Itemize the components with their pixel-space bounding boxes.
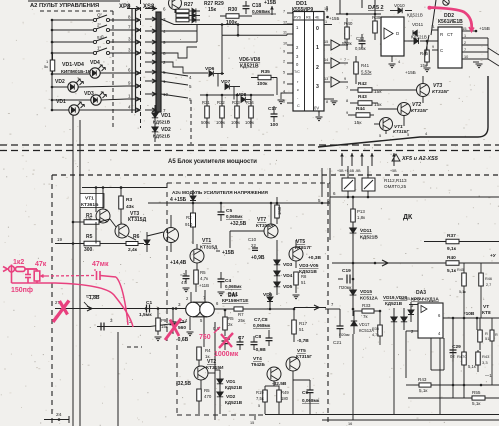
wire mid bottom	[452, 385, 454, 398]
pink bottom rail	[12, 282, 56, 284]
wire bus row3	[161, 19, 293, 25]
resistor R7 15k	[234, 307, 243, 311]
divider dashed line 1	[0, 144, 499, 146]
resistor right a	[478, 330, 483, 342]
capacitor C21	[337, 326, 344, 329]
diode pair VD19	[391, 317, 397, 322]
DD1 left pin 6	[287, 102, 293, 104]
svg-text:С20: С20	[356, 36, 365, 41]
svg-text:R45: R45	[420, 51, 429, 56]
capacitor C5	[218, 212, 225, 215]
vertical drops right	[463, 372, 465, 398]
connector XP8 bus	[131, 9, 133, 113]
svg-text:51: 51	[301, 280, 306, 285]
svg-text:2,7: 2,7	[486, 283, 491, 287]
svg-text:VT1: VT1	[85, 196, 94, 202]
pink X mark input	[53, 301, 69, 323]
svg-text:9,1к: 9,1к	[447, 246, 457, 252]
DD1 left pin 7	[287, 12, 293, 14]
svg-text:-10В: -10В	[464, 311, 475, 317]
switch common bus wire	[51, 20, 53, 111]
svg-text:КД521В: КД521В	[225, 385, 243, 390]
resistor R43b	[476, 352, 481, 365]
DD2 pin 7	[462, 51, 488, 53]
IC DD1 body	[293, 12, 324, 112]
svg-text:15к: 15к	[161, 324, 168, 329]
DD1 output buffer pin 13	[324, 81, 330, 83]
pink X mark C2	[165, 319, 181, 341]
resistor R40b	[462, 352, 467, 365]
svg-text:R46: R46	[485, 277, 492, 281]
svg-text:5,1к: 5,1к	[472, 401, 481, 406]
svg-text:100к: 100к	[226, 20, 237, 26]
svg-text:25к: 25к	[238, 318, 245, 323]
dashed separator	[140, 0, 142, 128]
svg-text:КТ315Г: КТ315Г	[296, 354, 312, 359]
board edge solid	[318, 137, 478, 147]
DD2 pin 2	[462, 44, 488, 46]
svg-text:5: 5	[258, 404, 260, 408]
svg-text:КР159НТ1Е: КР159НТ1Е	[222, 298, 249, 304]
svg-text:VD1-VD4: VD1-VD4	[62, 62, 84, 68]
wire input line 2	[97, 322, 186, 327]
svg-text:R40: R40	[447, 255, 456, 261]
svg-text:А2ч МОДУЛЬ УСИЛИТЕЛЯ НАПРЯЖ: А2ч МОДУЛЬ УСИЛИТЕЛЯ НАПРЯЖЕНИЯ	[172, 190, 268, 195]
resistor R5 4.7k	[194, 270, 199, 284]
svg-text:1М0: 1М0	[277, 206, 282, 215]
svg-text:100к: 100к	[231, 120, 240, 125]
DD1 output buffer pin 15	[324, 44, 330, 46]
svg-text:7: 7	[464, 48, 466, 52]
svg-text:VD11: VD11	[360, 228, 372, 234]
svg-text:15: 15	[462, 26, 467, 31]
svg-text:0,5мк: 0,5мк	[355, 46, 366, 51]
XP8 pin 6 arrow	[127, 72, 140, 74]
svg-text:+5В +5,6В -5В: +5В +5,6В -5В	[337, 169, 361, 173]
pink pot 47k	[34, 271, 40, 281]
svg-text:1,8к: 1,8к	[357, 215, 365, 220]
svg-text:100к: 100к	[216, 120, 225, 125]
svg-text:DA3: DA3	[416, 290, 426, 296]
diode VD5 module	[274, 282, 280, 287]
svg-text:+15Б: +15Б	[329, 16, 339, 21]
wire bus row4	[161, 30, 197, 32]
svg-text:VT1: VT1	[202, 238, 211, 244]
DD2 gnd	[473, 61, 479, 63]
transistor VT2 top	[398, 103, 411, 116]
fuse box 2	[362, 178, 375, 191]
screw symbol	[443, 0, 449, 5]
svg-text:VD4: VD4	[90, 60, 100, 66]
svg-text:R33: R33	[232, 100, 240, 105]
svg-text:+15Б: +15Б	[405, 70, 416, 75]
svg-text:11: 11	[431, 25, 435, 29]
pink wire diagonal 1	[116, 277, 128, 325]
resistor R2 910	[191, 213, 196, 227]
svg-text:R3: R3	[126, 197, 132, 203]
svg-text:R37: R37	[447, 233, 456, 239]
svg-text:4 +15Б: 4 +15Б	[170, 197, 187, 203]
DD1 left pin 9	[287, 52, 293, 54]
DD1 left pin 4	[287, 92, 293, 94]
resistor R3	[119, 196, 124, 209]
svg-text:-0,7В: -0,7В	[297, 338, 309, 344]
svg-text:22: 22	[251, 243, 256, 248]
svg-text:8: 8	[326, 100, 328, 104]
svg-text:13к: 13к	[85, 216, 92, 221]
svg-text:7: 7	[283, 10, 285, 14]
svg-text:+11В: +11В	[199, 283, 209, 288]
diode VD1 bottom	[217, 379, 223, 384]
svg-text:ОМЛТ0,25: ОМЛТ0,25	[384, 184, 407, 189]
resistor right edge a	[462, 273, 467, 286]
svg-text:9: 9	[344, 77, 346, 81]
svg-text:КР5ЧЧУД1А: КР5ЧЧУД1А	[411, 297, 439, 303]
svg-text:РУS: РУS	[294, 16, 302, 20]
svg-text:180: 180	[281, 396, 289, 401]
A2ch module dashed border	[167, 182, 330, 184]
svg-text:10: 10	[283, 42, 287, 46]
svg-text:16: 16	[348, 422, 352, 426]
resistor R35 dk	[378, 325, 383, 336]
resistor R1 5k	[50, 60, 55, 71]
svg-text:С8: С8	[255, 334, 261, 340]
wire output stage	[262, 308, 294, 310]
XS8 pin 2 arrow	[145, 61, 157, 63]
svg-text:0: 0	[316, 26, 319, 32]
svg-text:С10: С10	[248, 237, 257, 242]
svg-text:2к: 2к	[228, 322, 232, 327]
XP8 pin 4 arrow	[127, 109, 140, 111]
resistor R17 51	[292, 320, 297, 334]
IC DA52 body	[381, 17, 404, 56]
svg-text:R2: R2	[186, 215, 192, 220]
svg-text:R5: R5	[86, 234, 93, 240]
svg-text:R43: R43	[482, 354, 490, 359]
svg-text:1: 1	[316, 45, 319, 51]
A5 dashed top border	[52, 174, 499, 176]
svg-text:+15В: +15В	[264, 0, 276, 6]
svg-text:R31: R31	[202, 100, 210, 105]
svg-text:R55: R55	[472, 390, 481, 395]
divider dashed line 2	[0, 150, 499, 152]
svg-text:R19: R19	[256, 390, 264, 395]
XP8 pin 1 arrow	[127, 98, 140, 100]
svg-text:С18: С18	[252, 3, 261, 9]
resistor right edge c	[490, 330, 494, 341]
svg-text:VD3: VD3	[283, 262, 293, 268]
DD1 0V gnd	[318, 111, 320, 116]
svg-text:—1: —1	[485, 373, 492, 378]
XP8 pin 7 arrow	[127, 29, 140, 31]
DD1 output buffer pin 14	[324, 62, 330, 64]
XP8 pin 8 arrow	[127, 19, 140, 21]
diode VD2 bottom	[217, 392, 223, 397]
wire bus row8 staircase	[161, 47, 197, 58]
svg-text:R42: R42	[358, 81, 367, 87]
svg-text:+5В: +5В	[390, 169, 397, 173]
svg-text:С19: С19	[342, 268, 351, 274]
DD2 pin 10	[462, 58, 488, 60]
svg-text:1к2: 1к2	[13, 259, 24, 266]
svg-text:+15В: +15В	[479, 26, 490, 31]
capacitor C20	[359, 41, 366, 44]
svg-text:4,7к: 4,7к	[372, 333, 379, 337]
XP8 pin 3 arrow	[127, 52, 140, 54]
module gnd symbols	[183, 288, 190, 292]
svg-text:5,1к: 5,1к	[447, 268, 457, 274]
svg-text:R5: R5	[204, 388, 210, 393]
resistor R32	[220, 106, 225, 118]
wire bus row35	[222, 34, 287, 36]
diode pair VD20	[401, 317, 407, 322]
wire trunk x215	[214, 322, 216, 370]
svg-text:R470: R470	[457, 354, 467, 359]
svg-text:VT2: VT2	[412, 102, 421, 108]
svg-text:15к: 15к	[354, 120, 362, 126]
svg-text:+14,4В: +14,4В	[170, 260, 187, 266]
switch S4	[52, 52, 93, 54]
svg-text:А2 ПУЛЬТ УПРАВЛЕНИЯ: А2 ПУЛЬТ УПРАВЛЕНИЯ	[30, 3, 99, 9]
svg-text:5,1к: 5,1к	[459, 290, 466, 294]
svg-text:16: 16	[324, 7, 328, 11]
wire bus row2b	[161, 62, 208, 73]
transistor VT top	[169, 0, 182, 10]
svg-text:1,5мк: 1,5мк	[139, 312, 152, 318]
svg-text:А5 Блок усилителя мощности: А5 Блок усилителя мощности	[168, 159, 257, 165]
svg-text:47мк: 47мк	[92, 261, 109, 268]
switch S3	[52, 41, 93, 43]
DD1 left pin 8	[287, 83, 293, 85]
svg-text:КТ315Г: КТ315Г	[432, 89, 450, 95]
XS8 pin 1 arrow	[145, 80, 157, 82]
svg-text:С7: С7	[238, 335, 244, 341]
svg-text:+0,3В: +0,3В	[308, 255, 321, 261]
svg-text:VD5: VD5	[283, 284, 293, 290]
svg-text:VD2: VD2	[55, 79, 65, 85]
IC DD2 body	[438, 27, 462, 68]
svg-text:КД521В: КД521В	[240, 64, 259, 70]
svg-text:5,1к: 5,1к	[468, 364, 476, 369]
pink input connector	[9, 266, 15, 272]
svg-text:R7: R7	[238, 312, 244, 317]
svg-text:500к: 500к	[201, 120, 210, 125]
wire diagonal c	[161, 94, 188, 98]
XP8 pin 3 arrow	[127, 41, 140, 43]
svg-text:П20мк: П20мк	[339, 285, 352, 290]
svg-text:15: 15	[324, 40, 328, 44]
diode VD17	[351, 321, 357, 326]
svg-text:43к: 43к	[126, 204, 134, 210]
XP8 pin 9 arrow	[127, 85, 140, 87]
DD1 left pin 5	[287, 73, 293, 75]
svg-text:8: 8	[283, 81, 285, 85]
connector XS8 bus	[156, 12, 161, 112]
fuse box 1	[342, 178, 355, 191]
wire out line	[332, 262, 499, 264]
wire top rail left	[82, 187, 167, 189]
svg-text:R30: R30	[228, 7, 237, 13]
svg-text:RЕ: RЕ	[306, 16, 312, 20]
resistor R31	[205, 106, 210, 118]
svg-text:КД521В: КД521В	[407, 13, 423, 18]
resistor R5 470	[197, 389, 202, 401]
svg-text:R: R	[495, 333, 498, 337]
svg-text:1: 1	[464, 34, 466, 38]
XS8 pin 9 arrow	[145, 41, 157, 43]
DD2 pin 1	[462, 37, 488, 39]
svg-text:КД521В: КД521В	[225, 400, 243, 405]
diode VD12 h	[414, 38, 419, 44]
pink capacitor 47mk	[96, 271, 98, 280]
svg-text:47к: 47к	[35, 261, 47, 268]
svg-text:КТ315Г: КТ315Г	[411, 108, 429, 114]
svg-text:-0,9В: -0,9В	[254, 347, 266, 353]
svg-text:VD15: VD15	[360, 289, 372, 295]
wire gnd trunk	[352, 414, 354, 420]
DD1 left pin 11	[287, 33, 293, 35]
XP8 pin 5 arrow	[127, 8, 140, 10]
resistor 1M0	[275, 205, 280, 218]
svg-text:VТ: VТ	[483, 304, 489, 310]
svg-text:VD4: VD4	[283, 273, 293, 279]
svg-text:П20мк: П20мк	[339, 333, 350, 337]
resistor R9 15k	[156, 318, 161, 331]
svg-text:7,5к: 7,5к	[256, 396, 264, 401]
diode VD module	[190, 196, 196, 201]
svg-text:R32: R32	[217, 100, 225, 105]
svg-text:3: 3	[316, 84, 319, 90]
svg-text:10: 10	[464, 55, 468, 59]
wire diagonal b	[161, 81, 188, 85]
svg-text:1000мк: 1000мк	[214, 351, 239, 358]
svg-text:VT7: VT7	[257, 217, 266, 223]
diode VD4 module	[274, 271, 280, 276]
resistor right edge b	[479, 273, 484, 286]
wire res row top	[200, 94, 274, 96]
svg-text:КД521В: КД521В	[385, 301, 403, 306]
svg-text:2": 2"	[97, 23, 102, 28]
svg-text:R34: R34	[246, 100, 254, 105]
svg-text:2: 2	[316, 65, 319, 71]
svg-text:4,7к: 4,7к	[200, 276, 208, 281]
svg-text:100к: 100к	[245, 120, 254, 125]
capacitor C17	[271, 114, 278, 117]
capacitor C8b	[251, 342, 258, 345]
svg-text:VD1: VD1	[56, 99, 66, 105]
svg-text:R45: R45	[457, 268, 464, 272]
DD1 left pin 10	[287, 44, 293, 46]
svg-text:R49: R49	[281, 390, 289, 395]
XS8 pin 4 arrow	[145, 30, 157, 32]
wire vertical to lower	[72, 115, 74, 426]
wire vertical x353	[352, 197, 354, 316]
svg-text:15к: 15к	[208, 7, 217, 13]
svg-text:DA5 2: DA5 2	[368, 5, 384, 11]
pink wire diagonal 2	[55, 283, 133, 327]
svg-text:0,068мк: 0,068мк	[253, 323, 271, 328]
resistor R5 2k	[223, 317, 228, 330]
svg-text:VT5: VT5	[296, 239, 305, 245]
DD1 left pin 2	[287, 62, 293, 64]
DD1 pin4 gnd hook	[281, 93, 287, 99]
svg-text:13: 13	[324, 77, 328, 81]
svg-text:100: 100	[270, 122, 278, 128]
svg-text:КД521В: КД521В	[153, 120, 171, 125]
IC DA1 dual transistor	[186, 302, 201, 317]
diode VD11 dk	[350, 228, 357, 233]
pink X mark C6	[219, 333, 233, 348]
DA3 bottom loop	[430, 338, 432, 370]
XS8 pin 7 arrow	[145, 109, 157, 111]
svg-text:+15В: +15В	[222, 250, 234, 256]
svg-text:0,068мк: 0,068мк	[302, 398, 320, 403]
svg-text:R5: R5	[200, 270, 206, 275]
svg-text:СТ: СТ	[447, 32, 453, 37]
svg-text:VD3-V05: VD3-V05	[299, 263, 319, 269]
diode VD3 module	[274, 260, 280, 265]
svg-text:9: 9	[432, 45, 434, 49]
svg-text:VT3: VT3	[433, 83, 442, 89]
svg-text:15: 15	[250, 421, 254, 425]
svg-text:КД521В: КД521В	[360, 235, 378, 241]
svg-text:15к: 15к	[420, 63, 427, 68]
resistor R28	[176, 14, 189, 18]
A5 dashed left border	[51, 175, 53, 426]
capacitor C3	[183, 276, 190, 279]
svg-text:+У: +У	[490, 253, 497, 259]
XS8 pin 5 arrow	[145, 71, 157, 73]
wire diagonal a	[161, 72, 188, 76]
svg-text:0,068мк: 0,068мк	[226, 214, 243, 219]
svg-text:ХF5 и А2-ХS5: ХF5 и А2-ХS5	[401, 156, 439, 162]
wire long rail 398	[408, 397, 499, 399]
svg-text:+32,5В: +32,5В	[230, 221, 247, 227]
output junction dots	[452, 317, 455, 320]
wire vertical to lower 2	[79, 120, 81, 426]
svg-text:51: 51	[485, 336, 490, 341]
pink resistor 1k2	[16, 267, 26, 272]
svg-text:Т942Б: Т942Б	[251, 362, 265, 367]
wire vt connections	[95, 222, 97, 244]
pink capacitor 150pf	[25, 274, 31, 276]
svg-text:-0,6В: -0,6В	[176, 337, 189, 343]
svg-text:шЛ: шЛ	[97, 35, 104, 40]
svg-text:=3: =3	[180, 272, 186, 277]
svg-text:R33: R33	[362, 303, 371, 308]
resistor R34	[249, 106, 254, 118]
svg-text:14: 14	[324, 58, 328, 62]
fuse arrows up	[341, 153, 343, 166]
svg-text:Т/С: Т/С	[294, 70, 300, 74]
svg-text:R41: R41	[361, 63, 370, 68]
IC DA3 body	[418, 303, 443, 338]
diode VD1 top section	[152, 113, 158, 118]
capacitor C2 series	[101, 323, 104, 331]
svg-text:300: 300	[84, 247, 93, 253]
XS8 pin 10 arrow	[145, 93, 157, 95]
transistor VT1 lower	[96, 209, 110, 223]
svg-text:КТ315Д: КТ315Д	[128, 217, 147, 223]
svg-text:+0,9В: +0,9В	[251, 255, 265, 261]
wire bottom rail 414	[265, 414, 499, 416]
resistor R33	[235, 106, 240, 118]
svg-text:2: 2	[464, 41, 466, 45]
svg-text:К561ИЕ1В: К561ИЕ1В	[438, 19, 463, 25]
svg-text:2,4к: 2,4к	[128, 247, 138, 253]
svg-text:VD2: VD2	[161, 127, 171, 133]
svg-text:КТ315Д: КТ315Д	[200, 245, 218, 251]
